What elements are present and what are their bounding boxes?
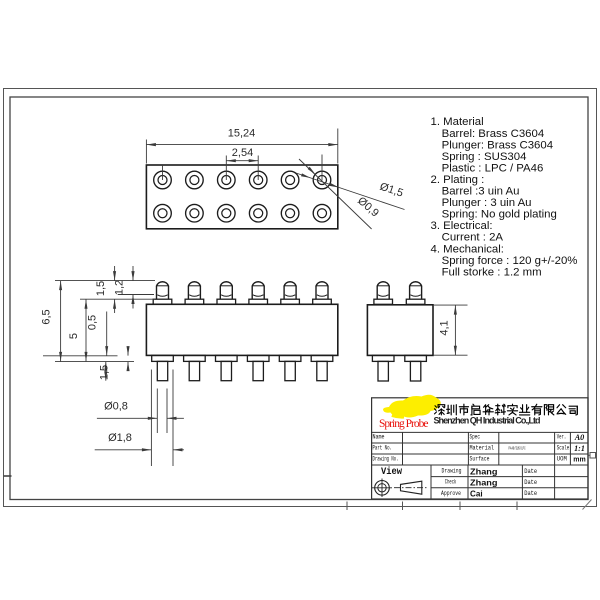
- svg-text:Approve: Approve: [441, 490, 461, 497]
- extension line at stroke level 1,2: [118, 294, 154, 296]
- dimension 15,24 extension lines: [145, 140, 147, 164]
- end view: insulator body outline: [367, 305, 433, 356]
- front/top probe 2: plunger dome cap: [188, 282, 200, 286]
- probe 2: barrel walls: [187, 286, 189, 299]
- centerline tick hole 1: [162, 165, 164, 180]
- title block vertical lines lower rows: [430, 465, 432, 499]
- probe 1: bottom shoulder: [152, 355, 174, 361]
- svg-text:Date: Date: [524, 490, 537, 497]
- probe end-1: bottom shoulder: [372, 355, 394, 361]
- top view: hole position 3 row 2 inner plunger circle: [222, 209, 231, 218]
- probe end-2: mounting flange: [406, 299, 425, 304]
- svg-text:Date: Date: [524, 479, 537, 486]
- svg-text:3. Electrical:: 3. Electrical:: [431, 220, 493, 232]
- svg-text:6,5: 6,5: [41, 309, 53, 324]
- probe 4: crimp meniscus arc inside barrel: [253, 295, 263, 297]
- svg-text:Plastic : LPC / PA46: Plastic : LPC / PA46: [442, 162, 544, 174]
- probe 3: mounting flange: [217, 299, 236, 304]
- dimension 1,8 lines with arrows: [95, 449, 152, 451]
- top view: hole position 5 row 2 outer barrel circle: [281, 204, 299, 222]
- probe end-1: mounting flange: [374, 299, 393, 304]
- dimension 5 line with arrows: [85, 299, 87, 361]
- svg-text:Name: Name: [373, 434, 385, 441]
- centering tick on left frame edge: [4, 475, 12, 477]
- probe 1: solder tail pin: [157, 361, 167, 380]
- front/top probe 6: plunger dome cap: [316, 282, 328, 286]
- probe 6: solder tail pin: [317, 361, 327, 380]
- sheet outer border frame: [4, 89, 597, 507]
- probe end-1: solder tail pin: [378, 361, 388, 381]
- front/top probe 1: plunger dome cap: [157, 282, 169, 286]
- dimension 4,1 line with arrows: [454, 305, 456, 355]
- title block outline: [372, 398, 588, 499]
- svg-text:Date: Date: [524, 468, 537, 475]
- end view extension lines for 4,1: [433, 304, 468, 306]
- svg-text:1. Material: 1. Material: [431, 116, 484, 128]
- dimension 1,5 (top, exposed plunger) arrows: [114, 266, 116, 281]
- svg-text:Zhang: Zhang: [470, 467, 498, 476]
- sheet inner border frame: [10, 97, 588, 500]
- third angle projection symbol: cone: [401, 481, 422, 494]
- probe 3: solder tail pin: [221, 361, 231, 380]
- svg-text:Drawing No.: Drawing No.: [373, 456, 399, 463]
- probe 6: dome/barrel junction line: [316, 285, 328, 287]
- front/top probe end-1: plunger dome cap: [377, 282, 389, 286]
- probe end-2: barrel walls: [409, 286, 411, 299]
- fold mark ticks on bottom frame: [346, 502, 348, 511]
- top view: hole position 5 row 1 inner plunger circle: [286, 176, 295, 185]
- svg-text:15,24: 15,24: [228, 128, 256, 140]
- svg-text:Plunger : 3 uin Au: Plunger : 3 uin Au: [442, 197, 532, 209]
- top view: hole position 5 row 2 inner plunger circle: [286, 209, 295, 218]
- dimension 0,8 lines with arrows: [97, 417, 157, 419]
- svg-text:Material: Material: [470, 445, 495, 452]
- top view: hole position 6 row 2 inner plunger circle: [318, 209, 327, 218]
- probe 1: mounting flange: [153, 299, 172, 304]
- probe 6: crimp meniscus arc inside barrel: [317, 295, 327, 297]
- svg-text:Spec: Spec: [470, 434, 481, 441]
- probe 3: barrel walls: [219, 286, 221, 299]
- top view: hole position 4 row 1 outer barrel circle: [249, 171, 267, 189]
- probe 2: bottom shoulder: [184, 355, 206, 361]
- cone centerline: [394, 487, 428, 489]
- front/top probe 5: plunger dome cap: [284, 282, 296, 286]
- leader line diameter 0,9: [299, 159, 372, 229]
- probe end-2: crimp meniscus arc inside barrel: [410, 295, 420, 297]
- top view: hole position 2 row 1 outer barrel circle: [186, 171, 204, 189]
- probe end-1: dome/barrel junction line: [377, 285, 389, 287]
- dimension 1,5 (bottom, solder tail) line with arrows: [105, 361, 107, 380]
- probe 4: barrel walls: [251, 286, 253, 299]
- Chinese company name (drawn strokes): [435, 405, 445, 415]
- probe 5: crimp meniscus arc inside barrel: [285, 295, 295, 297]
- svg-text:Part No.: Part No.: [373, 445, 393, 452]
- probe 5: bottom shoulder: [279, 355, 301, 361]
- top view: hole position 3 row 1 inner plunger circle: [222, 176, 231, 185]
- probe end-2: dome/barrel junction line: [410, 285, 422, 287]
- probe 5: barrel walls: [283, 286, 285, 299]
- probe 6: barrel walls: [315, 286, 317, 299]
- svg-text:Scale: Scale: [557, 445, 570, 452]
- svg-text:4,1: 4,1: [439, 320, 451, 335]
- probe 6: bottom shoulder: [311, 355, 333, 361]
- svg-text:Barrel :3 uin Au: Barrel :3 uin Au: [442, 186, 520, 198]
- svg-text:1:1: 1:1: [574, 444, 585, 453]
- probe 1: dome/barrel junction line: [157, 285, 169, 287]
- svg-text:1,2: 1,2: [114, 280, 126, 295]
- top view: hole position 1 row 2 outer barrel circle: [154, 204, 172, 222]
- title block horizontal lines: [372, 431, 588, 433]
- svg-text:Surface: Surface: [470, 456, 490, 463]
- svg-text:Ver.: Ver.: [557, 434, 567, 441]
- top view: connector body outline: [146, 165, 337, 229]
- svg-text:1,5: 1,5: [99, 365, 111, 380]
- top view: hole position 2 row 1 inner plunger circle: [190, 176, 199, 185]
- svg-text:Spring force : 120 g+/-20%: Spring force : 120 g+/-20%: [442, 255, 578, 267]
- front/top probe 3: plunger dome cap: [220, 282, 232, 286]
- probe 4: dome/barrel junction line: [252, 285, 264, 287]
- top view: hole position 3 row 2 outer barrel circle: [218, 204, 236, 222]
- top view: hole position 6 row 1 outer barrel circle: [313, 171, 331, 189]
- svg-text:4. Mechanical:: 4. Mechanical:: [431, 243, 504, 255]
- chamfer at bottom-right outer corner: [583, 500, 592, 510]
- top view: hole position 4 row 1 inner plunger circle: [254, 176, 263, 185]
- yellow highlighter scribble logo: [383, 395, 441, 418]
- svg-text:A0: A0: [574, 433, 585, 442]
- svg-text:Spring: No gold plating: Spring: No gold plating: [442, 209, 557, 221]
- svg-text:Spring : SUS304: Spring : SUS304: [442, 151, 527, 163]
- extension line at shoulder bottom level: [55, 361, 134, 363]
- svg-text:2. Plating :: 2. Plating :: [431, 174, 485, 186]
- extension line at flange top level: [80, 298, 155, 300]
- probe end-2: bottom shoulder: [405, 355, 427, 361]
- front/top probe end-2: plunger dome cap: [410, 282, 422, 286]
- svg-text:PA46/SUS/LPC: PA46/SUS/LPC: [509, 446, 526, 451]
- svg-text:Cai: Cai: [470, 490, 483, 499]
- dimension 15,24 line with arrows: [146, 144, 337, 146]
- top view: hole position 6 row 1 inner plunger circle: [318, 176, 327, 185]
- probe 5: mounting flange: [281, 299, 300, 304]
- svg-text:Barrel: Brass C3604: Barrel: Brass C3604: [442, 128, 545, 140]
- top view: hole position 1 row 1 inner plunger circle: [158, 176, 167, 185]
- svg-text:Zhang: Zhang: [470, 479, 498, 488]
- front/top probe 4: plunger dome cap: [252, 282, 264, 286]
- centerline tick hole 3: [225, 156, 227, 181]
- top view: hole position 5 row 1 outer barrel circle: [281, 171, 299, 189]
- probe 3: crimp meniscus arc inside barrel: [221, 295, 231, 297]
- third angle projection symbol: circle target: [375, 481, 390, 496]
- svg-text:Plunger: Brass C3604: Plunger: Brass C3604: [442, 139, 553, 151]
- top view: hole position 2 row 2 outer barrel circle: [186, 204, 204, 222]
- probe end-2: solder tail pin: [410, 361, 420, 381]
- top view: hole position 4 row 2 outer barrel circle: [249, 204, 267, 222]
- probe 4: solder tail pin: [253, 361, 263, 380]
- svg-text:mm: mm: [573, 456, 585, 463]
- probe 1: crimp meniscus arc inside barrel: [157, 295, 167, 297]
- dimension 1,2 (full stroke) arrows: [132, 266, 134, 281]
- svg-text:Current : 2A: Current : 2A: [442, 232, 504, 244]
- svg-text:Ø0,8: Ø0,8: [104, 401, 128, 413]
- leader line diameter 1,5: [296, 173, 405, 210]
- probe 2: solder tail pin: [189, 361, 199, 380]
- probe 4: mounting flange: [249, 299, 268, 304]
- svg-text:0,5: 0,5: [87, 315, 99, 330]
- svg-text:View: View: [381, 466, 402, 478]
- top view: hole position 2 row 2 inner plunger circle: [190, 209, 199, 218]
- probe end-1: barrel walls: [376, 286, 378, 299]
- probe 2: crimp meniscus arc inside barrel: [189, 295, 199, 297]
- svg-text:Spring Probe: Spring Probe: [379, 418, 429, 430]
- top view: hole position 1 row 1 outer barrel circle: [154, 171, 172, 189]
- dimension 2,54 line with arrows: [226, 160, 258, 162]
- svg-text:Shenzhen QH Industrial Co.,Ltd: Shenzhen QH Industrial Co.,Ltd: [434, 415, 541, 425]
- probe 5: solder tail pin: [285, 361, 295, 380]
- dimension 6,5 line with arrows: [60, 281, 62, 362]
- extension line at dome top level: [55, 280, 155, 282]
- top view: hole position 4 row 2 inner plunger circle: [254, 209, 263, 218]
- centerline tick hole 4: [257, 156, 259, 181]
- svg-text:Check: Check: [445, 479, 457, 486]
- probe 3: bottom shoulder: [216, 355, 238, 361]
- svg-text:UOM: UOM: [557, 456, 567, 463]
- svg-text:2,54: 2,54: [232, 147, 253, 159]
- probe end-1: crimp meniscus arc inside barrel: [378, 295, 388, 297]
- title block vertical lines upper rows: [402, 432, 404, 465]
- top view: hole position 6 row 2 outer barrel circle: [313, 204, 331, 222]
- probe 3: dome/barrel junction line: [220, 285, 232, 287]
- probe 1: barrel walls: [156, 286, 158, 299]
- probe 6: mounting flange: [313, 299, 332, 304]
- extension line at body bottom level: [43, 355, 118, 357]
- svg-text:Drawing: Drawing: [442, 467, 462, 474]
- front view: insulator body outline: [146, 304, 337, 355]
- top view: hole position 3 row 1 outer barrel circle: [218, 171, 236, 189]
- extension lines shoulder diameter 1,8: [150, 370, 152, 467]
- probe 5: dome/barrel junction line: [284, 285, 296, 287]
- probe 4: bottom shoulder: [247, 355, 269, 361]
- centering mark square on right frame edge: [590, 453, 596, 459]
- centerline tick hole 6: [321, 155, 323, 181]
- svg-text:1,5: 1,5: [95, 281, 107, 296]
- svg-text:5: 5: [68, 333, 80, 339]
- probe 2: mounting flange: [185, 299, 204, 304]
- probe 2: dome/barrel junction line: [188, 285, 200, 287]
- extension lines pin diameter 0,8: [156, 389, 158, 434]
- top view: hole position 1 row 2 inner plunger circle: [158, 209, 167, 218]
- svg-text:Ø1,8: Ø1,8: [108, 432, 132, 444]
- svg-text:Full storke : 1.2 mm: Full storke : 1.2 mm: [442, 266, 542, 278]
- dimension 0,5 leader lines with arrows: [106, 312, 108, 356]
